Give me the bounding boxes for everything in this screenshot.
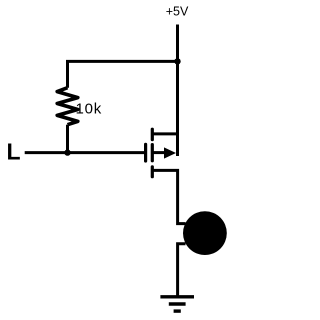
wire L to gate: [25, 151, 144, 154]
ground bar 1: [160, 295, 194, 298]
transistor Q1 body arrow: [164, 147, 176, 158]
transistor Q1 drain stub: [152, 132, 177, 135]
ground bar 2: [169, 302, 186, 305]
speaker/indicator filled circle: [183, 211, 227, 255]
ground bar 3: [174, 309, 181, 312]
transistor Q1 body stub: [152, 151, 165, 154]
transistor Q1 channel bottom segment: [151, 167, 154, 177]
transistor Q1 channel middle segment: [151, 145, 154, 161]
svg-text:L: L: [7, 139, 21, 165]
wire +5V rail vertical (top to drain/arrow): [176, 25, 179, 157]
wire resistor bottom lead: [66, 125, 69, 153]
transistor Q1 gate bar: [144, 144, 147, 161]
junction dot at +5V rail: [174, 58, 180, 64]
wire source to speaker top terminal: [152, 170, 185, 223]
junction dot at resistor bottom: [64, 149, 70, 155]
transistor Q1 channel top segment: [151, 129, 154, 139]
resistor 10k zigzag: [57, 88, 78, 125]
wire speaker bottom terminal to ground: [178, 244, 186, 297]
wire top horizontal (rail to resistor top): [68, 61, 178, 87]
svg-text:+5V: +5V: [166, 5, 189, 19]
svg-text:10k: 10k: [76, 100, 103, 117]
